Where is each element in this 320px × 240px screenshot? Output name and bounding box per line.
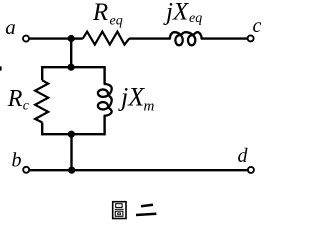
svg-text:a: a [5,15,16,39]
svg-text:d: d [238,145,249,167]
resistor Req [83,32,129,45]
svg-text:jX: jX [163,0,190,26]
left edge artifact [0,66,2,70]
right branch bottom lead [103,116,105,136]
terminal b [23,167,29,173]
svg-text:m: m [144,98,155,114]
svg-text:c: c [23,99,30,114]
wire inductor to terminal c [202,37,248,39]
box bottom bar [42,133,104,135]
svg-text:eq: eq [110,13,123,28]
inductor jXeq [170,32,202,45]
inductor jXm [98,84,112,116]
terminal d [248,167,254,173]
wire box bottom to bottom rail [70,134,72,170]
wire junction to resistor [71,37,83,39]
svg-text:R: R [92,0,108,26]
bottom rail wire [30,169,248,171]
junction box top [68,64,75,71]
svg-text:jX: jX [118,83,145,112]
caption character 二 [136,205,156,215]
wire a to junction [30,37,72,39]
box top bar [42,66,104,68]
svg-text:eq: eq [189,11,202,26]
svg-text:c: c [253,15,262,37]
svg-text:R: R [7,86,23,112]
wire resistor to inductor [129,37,170,39]
terminal a [23,36,29,42]
svg-text:b: b [12,149,22,171]
wire junction down to box top [70,39,72,68]
left branch top lead [41,66,43,80]
left branch bottom lead [41,122,43,135]
junction bottom rail [68,167,75,174]
caption character 圖 [113,202,126,219]
terminal c [248,35,254,41]
junction node a [68,35,75,42]
resistor Rc [35,80,48,122]
junction box bottom [68,131,75,138]
right branch top lead [103,66,105,84]
